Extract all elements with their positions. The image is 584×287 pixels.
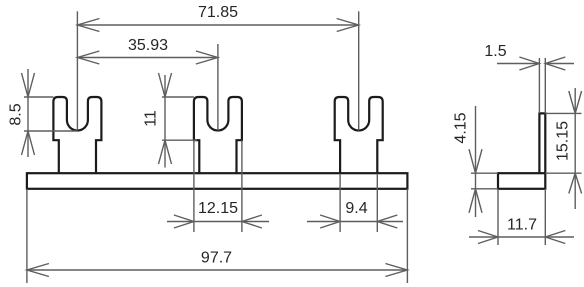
svg-text:11.7: 11.7 xyxy=(507,217,537,234)
dim 1.5 line left xyxy=(497,63,539,65)
svg-text:12.15: 12.15 xyxy=(198,200,238,217)
dim 97.7 extension left xyxy=(26,189,28,283)
dim 11 bottom arrow xyxy=(159,140,172,164)
svg-text:11: 11 xyxy=(143,110,160,127)
dim 1.5 right arrow xyxy=(545,57,565,70)
svg-text:4.15: 4.15 xyxy=(453,112,470,143)
dim 11.7 right arrow xyxy=(545,231,565,244)
dim 8.5 extension bottom xyxy=(24,130,77,132)
dim 4.15 extension top xyxy=(471,172,498,174)
dim 9.4 line xyxy=(307,221,403,223)
dim 15.15 bottom arrow xyxy=(569,173,582,193)
dim 4.15 line xyxy=(475,106,477,217)
dim 35.93 left arrow xyxy=(77,51,99,64)
dim 11.7 left arrow xyxy=(478,231,498,244)
dim 11 line xyxy=(164,75,166,168)
dim 9.4 extension right xyxy=(376,174,378,232)
busbar body (front view) xyxy=(27,173,408,189)
dim 11.7 line xyxy=(469,236,574,238)
dim 35.93 line xyxy=(77,57,218,59)
dim 12.15 left arrow xyxy=(174,215,194,228)
dim 8.5 extension top xyxy=(24,96,53,98)
dim 1.5 line right xyxy=(545,63,574,65)
dim 9.4 extension left xyxy=(339,174,341,232)
svg-text:35.93: 35.93 xyxy=(128,37,168,54)
svg-text:8.5: 8.5 xyxy=(8,103,25,125)
dim 11.7 extension left xyxy=(497,189,499,245)
dim 97.7 right arrow xyxy=(385,264,407,277)
centerline fork 3 xyxy=(358,11,360,130)
centerline fork 1 xyxy=(76,11,78,130)
dim 15.15 top arrow xyxy=(569,91,582,113)
dim 15.15 line xyxy=(574,88,576,209)
dim 15.15 extension bottom xyxy=(545,172,581,174)
dim 8.5 top arrow xyxy=(22,73,35,97)
fork terminal 3 xyxy=(335,97,383,174)
dim 97.7 left arrow xyxy=(27,264,49,277)
dim 97.7 line xyxy=(27,269,408,271)
dim 12.15 right arrow xyxy=(242,215,262,228)
dim 8.5 line xyxy=(27,69,29,157)
dim 71.85 right arrow xyxy=(337,19,359,32)
dim 71.85 line xyxy=(77,24,358,26)
fork terminal 2 xyxy=(194,97,242,174)
dim 9.4 left arrow xyxy=(320,215,340,228)
dim 9.4 right arrow xyxy=(377,215,397,228)
svg-text:15.15: 15.15 xyxy=(555,121,572,161)
dim 11 extension top xyxy=(162,96,194,98)
fork terminal 1 xyxy=(53,97,101,174)
dim 15.15 extension top xyxy=(545,112,581,114)
svg-text:9.4: 9.4 xyxy=(345,200,367,217)
dim 97.7 extension right xyxy=(406,189,408,283)
svg-text:1.5: 1.5 xyxy=(484,43,506,60)
centerline fork 2 xyxy=(217,44,219,131)
dim 8.5 bottom arrow xyxy=(22,131,35,155)
dim 1.5 left arrow xyxy=(519,57,539,70)
dim 4.15 top arrow xyxy=(469,149,482,173)
dim 4.15 bottom arrow xyxy=(469,189,482,213)
dim 12.15 extension left xyxy=(193,140,195,232)
dim 12.15 extension right xyxy=(241,140,243,232)
dim 1.5 extension right xyxy=(544,58,546,113)
busbar cross-section (side view) xyxy=(498,173,545,189)
dim 12.15 line xyxy=(167,221,269,223)
dim 11.7 extension right xyxy=(544,189,546,245)
dim 35.93 right arrow xyxy=(196,51,218,64)
dim 4.15 extension bottom xyxy=(471,188,498,190)
svg-text:71.85: 71.85 xyxy=(198,4,238,21)
dim 1.5 extension left xyxy=(538,58,540,113)
dim 11 top arrow xyxy=(159,73,172,97)
svg-text:97.7: 97.7 xyxy=(201,250,232,267)
upright leg (side view) xyxy=(539,113,545,173)
dim 11 extension bottom xyxy=(162,139,197,141)
dim 71.85 left arrow xyxy=(77,19,99,32)
